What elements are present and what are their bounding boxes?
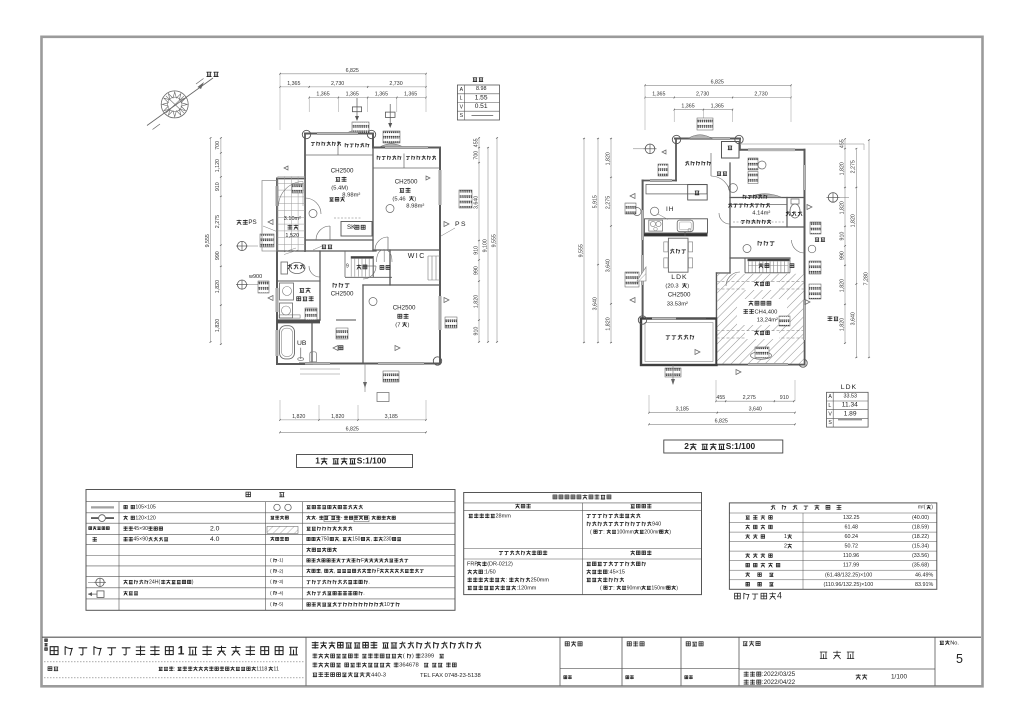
svg-text:1,820: 1,820 [292,414,305,420]
svg-text:1,365: 1,365 [316,92,329,98]
svg-text:700: 700 [473,151,479,160]
svg-text:2399: 2399 [421,654,434,660]
svg-text:1,820: 1,820 [473,295,479,308]
svg-text:750: 750 [321,537,330,543]
svg-text:1,120: 1,120 [215,159,221,172]
svg-text:8.98m²: 8.98m² [406,203,424,209]
svg-text:33.53m²: 33.53m² [667,301,688,307]
svg-text:440-3: 440-3 [371,672,387,678]
svg-text::2022/03/25: :2022/03/25 [762,671,796,678]
svg-text:28mm: 28mm [496,514,512,520]
svg-text:-4): -4) [278,590,284,596]
svg-text:61.48: 61.48 [845,525,859,531]
svg-text:): ) [676,585,678,591]
svg-text:LDK: LDK [841,384,857,391]
svg-text:L: L [828,403,831,409]
svg-text:45×90: 45×90 [133,537,148,543]
svg-text:1,820: 1,820 [839,279,845,292]
svg-text:1/100: 1/100 [891,674,907,681]
svg-text:,: , [334,569,335,575]
svg-text:7,280: 7,280 [863,272,869,285]
svg-text:CH2500: CH2500 [668,292,691,299]
svg-text:-3): -3) [278,579,284,585]
svg-text:TEL FAX 0748-23-5138: TEL FAX 0748-23-5138 [420,673,481,679]
svg-text:1,365: 1,365 [346,92,359,98]
svg-text:4: 4 [777,591,782,601]
svg-text:2,730: 2,730 [331,81,344,87]
svg-text:6,825: 6,825 [711,79,724,85]
svg-text:(7: (7 [395,322,400,328]
svg-text:6,825: 6,825 [715,418,728,424]
svg-text:S:1/100: S:1/100 [357,456,387,466]
svg-text::: : [613,585,614,591]
svg-text:105×105: 105×105 [135,505,155,511]
svg-text::: : [603,529,604,535]
svg-text:2: 2 [684,441,689,451]
svg-text:LDK: LDK [671,274,687,281]
svg-text:F: F [361,558,364,564]
svg-text:2: 2 [784,544,787,550]
svg-text:1118: 1118 [256,666,267,672]
svg-text:24H(: 24H( [149,580,161,586]
svg-text:0.51: 0.51 [475,103,488,110]
svg-text:(DR-0212): (DR-0212) [487,562,513,568]
svg-text:V: V [460,104,464,110]
svg-text:): ) [412,654,414,660]
svg-text:1,820: 1,820 [605,317,611,330]
svg-text:2,275: 2,275 [215,215,221,228]
svg-text:910: 910 [839,232,845,241]
svg-text:(20.3: (20.3 [665,283,678,289]
svg-text:(: ( [403,654,405,660]
svg-text:(61.48/132.25)×100: (61.48/132.25)×100 [825,572,872,578]
svg-text:.: . [368,580,369,586]
svg-text:9: 9 [346,264,349,270]
svg-text:PS: PS [455,221,467,228]
svg-text:990: 990 [215,251,221,260]
svg-text:1,820: 1,820 [215,319,221,332]
svg-text:4.14m²: 4.14m² [752,210,770,216]
svg-text:910: 910 [780,395,789,401]
svg-text:5,915: 5,915 [592,195,598,208]
svg-text:CH2500: CH2500 [395,179,418,186]
svg-text:117.99: 117.99 [843,563,859,569]
svg-text:2,275: 2,275 [743,395,756,401]
svg-text:3,640: 3,640 [592,297,598,310]
svg-text:8.98m²: 8.98m² [342,192,360,198]
svg-text:A: A [460,87,464,93]
svg-text:910: 910 [473,246,479,255]
svg-text:1,820: 1,820 [839,201,845,214]
svg-text:F: F [377,569,380,575]
svg-text::: : [174,666,175,672]
svg-text:364678: 364678 [399,663,419,669]
svg-text:5: 5 [956,652,963,666]
svg-text:2,730: 2,730 [389,81,402,87]
svg-text:(: ( [600,585,602,591]
svg-text:CH4,400: CH4,400 [755,309,778,315]
svg-text:): ) [192,580,194,586]
svg-text:,: , [371,537,372,543]
svg-text:9,555: 9,555 [205,234,211,247]
svg-text:CH2500: CH2500 [331,168,354,175]
svg-text:1,365: 1,365 [711,104,724,110]
svg-text:,: , [321,569,322,575]
svg-text:940: 940 [652,522,661,528]
svg-text:(15.34): (15.34) [912,544,929,550]
svg-text:(18.22): (18.22) [912,534,929,540]
svg-text:): ) [687,283,689,289]
svg-text:1: 1 [178,643,187,657]
svg-text:2,730: 2,730 [696,92,709,98]
svg-text:w900: w900 [248,274,262,280]
svg-text:1,365: 1,365 [681,104,694,110]
svg-text:455: 455 [716,395,725,401]
svg-text:2,730: 2,730 [754,92,767,98]
svg-text:(33.56): (33.56) [912,553,929,559]
svg-text:.: . [363,591,364,597]
svg-text:3,640: 3,640 [473,196,479,209]
svg-text:910: 910 [215,182,221,191]
svg-text:(: ( [590,529,592,535]
svg-text:46.49%: 46.49% [915,572,933,578]
svg-text:(18.59): (18.59) [912,525,929,531]
svg-text:No.: No. [950,640,959,646]
svg-text:3,185: 3,185 [676,407,689,413]
svg-text:45×90: 45×90 [133,526,148,532]
svg-text:6,825: 6,825 [346,68,359,74]
svg-text:9,100: 9,100 [482,239,488,252]
svg-text:1,520: 1,520 [285,233,299,239]
svg-text:CH2500: CH2500 [331,291,354,298]
svg-text:3,640: 3,640 [851,312,857,325]
svg-text:9,555: 9,555 [491,234,497,247]
svg-text:2,275: 2,275 [605,196,611,209]
svg-text:-5): -5) [278,602,284,608]
svg-text:100mm,: 100mm, [617,529,636,535]
svg-text:110.96: 110.96 [843,553,859,559]
svg-text:(5.46: (5.46 [392,196,405,202]
svg-text:990: 990 [473,266,479,275]
svg-text:1,365: 1,365 [287,81,300,87]
svg-text:V: V [828,412,832,418]
svg-text:3,640: 3,640 [605,259,611,272]
svg-text:1,365: 1,365 [652,92,665,98]
svg-text:3,185: 3,185 [385,414,398,420]
svg-text:4.0: 4.0 [210,536,220,543]
svg-text:150mm: 150mm [651,585,668,591]
svg-text:910: 910 [473,327,479,336]
svg-text::1/50: :1/50 [484,570,496,576]
svg-text::120mm: :120mm [517,586,537,592]
svg-text:90mm,: 90mm, [627,585,643,591]
svg-text:1,365: 1,365 [404,92,417,98]
svg-text:1,820: 1,820 [215,280,221,293]
svg-text:1,820: 1,820 [851,214,857,227]
svg-text:11: 11 [273,666,279,672]
svg-text:IH: IH [666,206,675,213]
svg-text:120×120: 120×120 [135,515,155,521]
svg-text:1,820: 1,820 [605,152,611,165]
svg-text:250mm: 250mm [531,578,550,584]
svg-text:(110.96/132.25)×100: (110.96/132.25)×100 [824,582,874,588]
svg-text:50.72: 50.72 [845,544,859,550]
svg-text:): ) [408,322,410,328]
svg-text:): ) [414,196,416,202]
svg-text:): ) [669,529,671,535]
svg-text:1,820: 1,820 [331,414,344,420]
svg-text:990: 990 [839,251,845,260]
svg-text:S: S [460,113,464,119]
svg-text:60.24: 60.24 [845,534,859,540]
svg-text:8.98: 8.98 [476,86,487,92]
svg-text:1,820: 1,820 [839,318,845,331]
svg-text:UB: UB [297,340,307,347]
svg-text:33.53: 33.53 [844,394,858,400]
svg-text:10: 10 [384,602,390,608]
svg-text:1: 1 [315,456,320,466]
svg-text:PS: PS [248,219,256,226]
svg-text:L: L [460,96,463,102]
svg-text:3.10m²: 3.10m² [284,216,301,222]
svg-text:150: 150 [352,537,361,543]
svg-text:A: A [828,394,832,400]
svg-text:(5.4M): (5.4M) [331,185,348,191]
svg-text:3,640: 3,640 [749,407,762,413]
svg-text:-1): -1) [278,558,284,564]
svg-text:WIC: WIC [408,253,426,260]
svg-text:m²(: m²( [918,505,926,511]
svg-text:,: , [339,537,340,543]
svg-text:1.55: 1.55 [475,94,488,101]
svg-text::2022/04/22: :2022/04/22 [762,679,796,686]
svg-text:1,365: 1,365 [375,92,388,98]
svg-text:700: 700 [215,141,221,150]
svg-text:CH2500: CH2500 [393,305,416,312]
svg-text::45×15: :45×15 [608,570,625,576]
svg-text:-2): -2) [278,568,284,574]
svg-text:83.91%: 83.91% [915,582,933,588]
svg-text:.: . [316,515,317,521]
svg-text:S:1/100: S:1/100 [726,441,756,451]
svg-text:455: 455 [473,138,479,147]
svg-text:132.25: 132.25 [843,515,860,521]
svg-text:(40.00): (40.00) [912,515,929,521]
svg-text:S: S [828,420,832,426]
svg-text:1.89: 1.89 [844,410,857,417]
svg-text:230: 230 [383,537,392,543]
svg-text:1,820: 1,820 [839,162,845,175]
svg-text:(35.68): (35.68) [912,563,929,569]
svg-text:200mm: 200mm [644,529,661,535]
svg-text:11.34: 11.34 [842,402,858,409]
svg-text:6,825: 6,825 [346,426,359,432]
svg-text:2.0: 2.0 [210,525,220,532]
svg-text:2,275: 2,275 [851,160,857,173]
svg-text:1: 1 [784,534,787,540]
svg-text:13,24m²: 13,24m² [757,317,778,323]
svg-text:9,555: 9,555 [578,244,584,257]
